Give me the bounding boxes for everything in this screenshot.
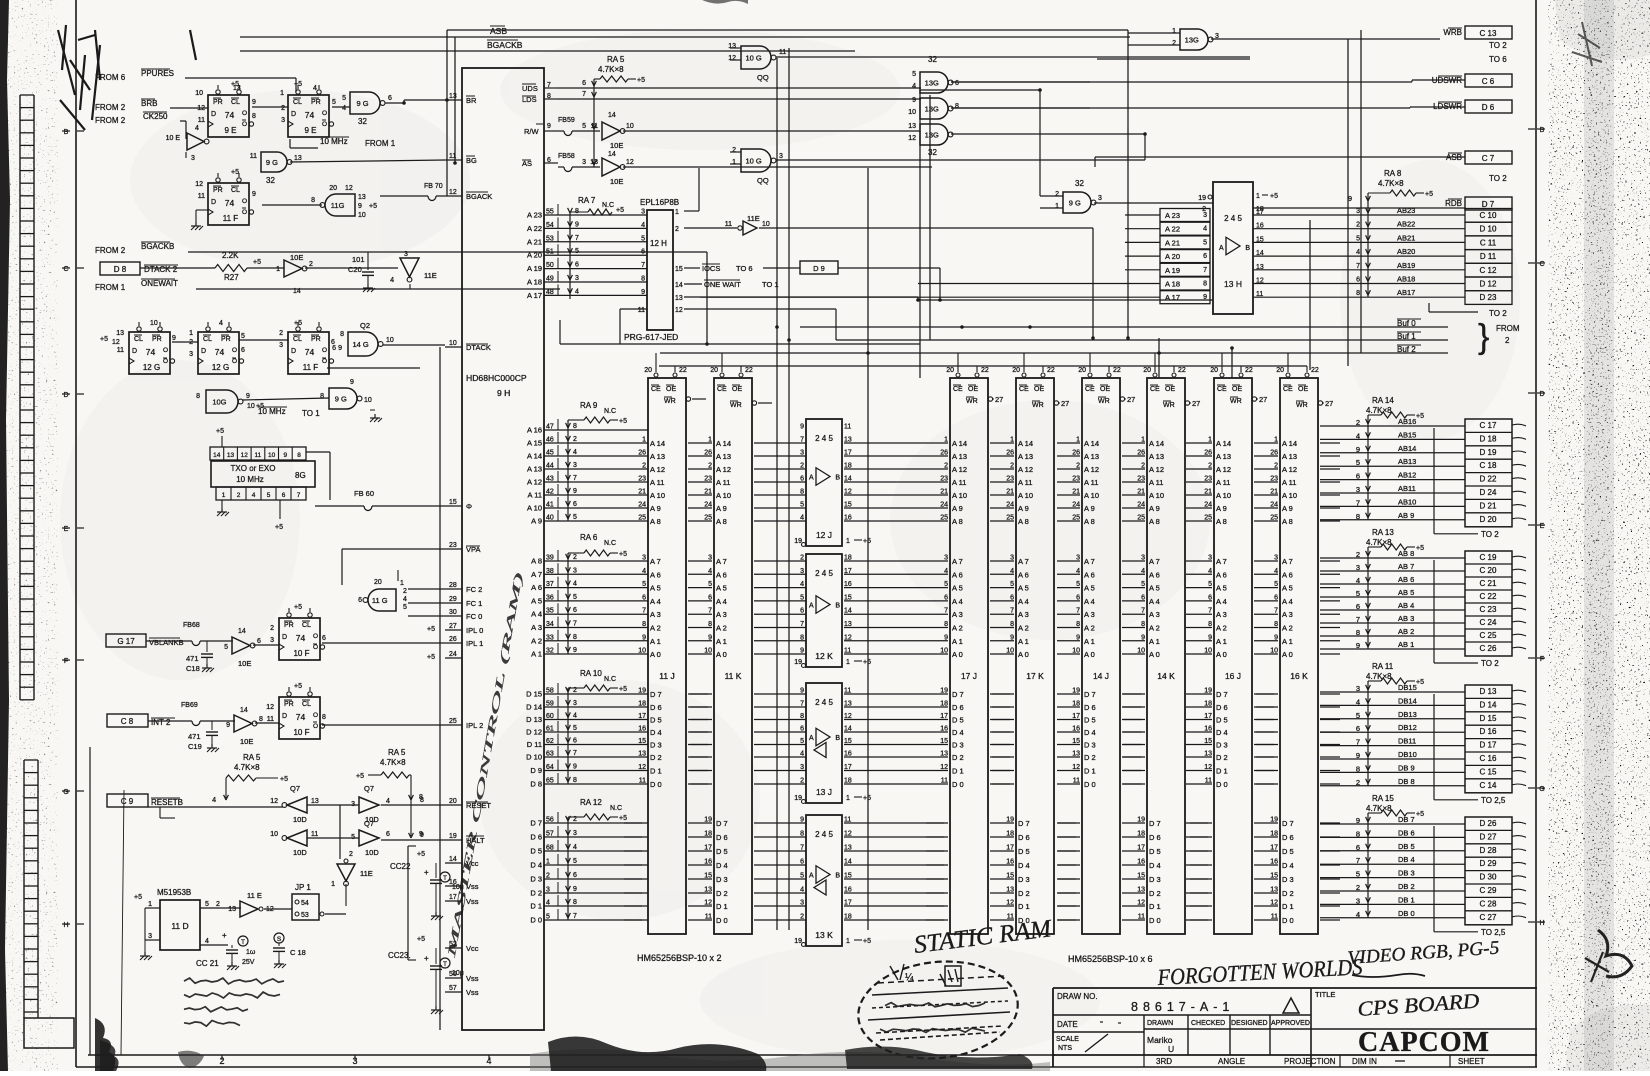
svg-text:A 1: A 1 <box>1149 637 1160 646</box>
svg-text:TO 2,5: TO 2,5 <box>1481 796 1506 805</box>
wire A2x row A 20 <box>544 254 647 256</box>
svg-text:IPL 2: IPL 2 <box>466 721 483 730</box>
svg-text:47: 47 <box>546 424 554 431</box>
svg-text:D 1: D 1 <box>1149 902 1161 911</box>
svg-text:R/W: R/W <box>524 127 540 136</box>
svg-text:10μ: 10μ <box>452 884 464 891</box>
wire 12H pin13 <box>684 296 918 298</box>
svg-text:A: A <box>809 873 814 880</box>
svg-text:13: 13 <box>675 295 683 302</box>
svg-text:22: 22 <box>981 367 989 374</box>
svg-text:D 1: D 1 <box>1282 902 1294 911</box>
svg-text:12: 12 <box>270 798 278 805</box>
svg-text:6: 6 <box>800 726 804 733</box>
svg-text:A 22: A 22 <box>1165 225 1180 234</box>
svg-text:+5: +5 <box>294 604 302 611</box>
svg-text:A 5: A 5 <box>1282 584 1293 593</box>
svg-text:20: 20 <box>1078 367 1086 374</box>
svg-text:3: 3 <box>800 900 804 907</box>
svg-text:C19: C19 <box>188 742 202 751</box>
svg-text:+5: +5 <box>1270 193 1278 200</box>
title block outer frame <box>1053 987 1537 989</box>
node box C9 RESETB <box>107 794 148 807</box>
svg-text:12: 12 <box>626 159 634 166</box>
wire bundle gap 7 <box>1254 442 1278 444</box>
svg-text:1: 1 <box>148 901 152 908</box>
svg-text:TITLE: TITLE <box>1315 990 1335 999</box>
svg-text:3: 3 <box>800 764 804 771</box>
svg-text:CL: CL <box>293 336 302 343</box>
svg-text:PR: PR <box>311 336 321 343</box>
svg-text:4: 4 <box>219 320 223 327</box>
RA10 row D 13 wire <box>558 719 648 721</box>
svg-text:5: 5 <box>800 594 804 601</box>
svg-text:5: 5 <box>800 738 804 745</box>
svg-text:11: 11 <box>844 817 851 824</box>
svg-text:A 0: A 0 <box>650 650 661 659</box>
svg-text:BR: BR <box>466 96 477 105</box>
svg-text:C 13: C 13 <box>1480 29 1497 38</box>
svg-text:10E: 10E <box>610 177 623 186</box>
svg-text:OE: OE <box>1232 386 1242 393</box>
svg-text:9: 9 <box>912 97 916 104</box>
svg-text:D 7: D 7 <box>1216 690 1228 699</box>
svg-text:IPL 1: IPL 1 <box>466 639 483 648</box>
svg-text:13 J: 13 J <box>816 787 832 797</box>
svg-text:9: 9 <box>642 634 646 641</box>
top-left corner scratches <box>58 30 75 95</box>
RAM 11 K unused data row stubs <box>690 693 708 695</box>
svg-text:8: 8 <box>575 208 579 215</box>
svg-text:9 H: 9 H <box>497 388 510 398</box>
svg-text:74: 74 <box>305 347 315 357</box>
svg-text:WR: WR <box>1163 402 1175 409</box>
svg-text:A 18: A 18 <box>527 278 542 287</box>
RA 13 row AB 1 right stub <box>1512 647 1526 649</box>
svg-text:8: 8 <box>320 393 324 400</box>
svg-text:B: B <box>835 603 840 610</box>
svg-text:10: 10 <box>908 109 916 116</box>
svg-text:4: 4 <box>1356 910 1360 919</box>
svg-text:A 11: A 11 <box>1282 478 1296 487</box>
wire bundle gap 4 <box>1057 442 1080 444</box>
svg-text:32: 32 <box>928 148 937 157</box>
svg-text:Q7: Q7 <box>364 784 374 793</box>
svg-text:2: 2 <box>279 330 283 337</box>
svg-text:20: 20 <box>710 367 718 374</box>
wire reset crossover <box>339 805 341 859</box>
svg-text:16: 16 <box>844 515 852 522</box>
RA 14 row AB12 right stub <box>1512 478 1526 480</box>
svg-text:A 14: A 14 <box>716 439 731 448</box>
svg-text:RA 11: RA 11 <box>1372 662 1394 671</box>
svg-text:+5: +5 <box>1416 811 1424 818</box>
svg-text:4: 4 <box>1356 697 1360 706</box>
svg-text:+5: +5 <box>863 538 871 545</box>
svg-text:+5: +5 <box>619 418 627 425</box>
RA 15 row DB 1 <box>1320 903 1465 905</box>
svg-text:10D: 10D <box>365 848 379 857</box>
svg-text:1: 1 <box>675 209 679 216</box>
svg-text:3: 3 <box>800 450 804 457</box>
bottom right corner scribble <box>1598 930 1632 977</box>
ground under 11F <box>196 209 208 211</box>
oscillator pin header top <box>210 447 306 460</box>
svg-text:7: 7 <box>641 262 645 269</box>
svg-text:C 20: C 20 <box>1480 566 1497 575</box>
wire IOCS row <box>684 267 700 269</box>
svg-text:BG: BG <box>466 156 477 165</box>
svg-text:6: 6 <box>1356 843 1360 852</box>
svg-text:D 0: D 0 <box>1282 916 1294 925</box>
svg-text:DTACK 2: DTACK 2 <box>144 265 178 274</box>
svg-text:41: 41 <box>546 502 554 509</box>
PRG-617-JED underline wire <box>560 343 920 345</box>
RA9 row A 13 wire <box>558 468 648 470</box>
svg-text:7: 7 <box>573 621 577 628</box>
svg-text:11E: 11E <box>424 271 437 280</box>
svg-text:13G: 13G <box>1185 36 1199 45</box>
svg-text:DB 9: DB 9 <box>1398 763 1415 772</box>
svg-text:FROM 2: FROM 2 <box>95 103 126 112</box>
RA9 row A 11 wire <box>558 494 648 496</box>
svg-text:5: 5 <box>1356 589 1360 598</box>
svg-text:8: 8 <box>800 831 804 838</box>
svg-text:DESIGNED: DESIGNED <box>1231 1020 1268 1027</box>
svg-text:5: 5 <box>912 71 916 78</box>
svg-text:13: 13 <box>844 437 852 444</box>
wire LDS row <box>558 98 921 100</box>
svg-text:+5: +5 <box>100 336 108 343</box>
svg-text:20: 20 <box>449 798 457 805</box>
wire A2x row A 23 <box>544 214 647 216</box>
svg-text:A 18: A 18 <box>1165 280 1180 289</box>
svg-text:4: 4 <box>1356 576 1360 585</box>
svg-text:5: 5 <box>573 594 577 601</box>
svg-text:8G: 8G <box>295 471 306 480</box>
svg-text:A 5: A 5 <box>650 584 661 593</box>
svg-text:9: 9 <box>172 335 176 342</box>
svg-text:FROM 6: FROM 6 <box>95 73 126 82</box>
RAM 14 K pin 20/22 stubs <box>1153 373 1157 377</box>
svg-text:A 0: A 0 <box>952 650 963 659</box>
RAM 14 J pin 20/22 stubs <box>1088 373 1092 377</box>
svg-text:74: 74 <box>296 633 306 643</box>
svg-text:D 19: D 19 <box>1480 448 1497 457</box>
RAM 11 J unused data row stubs <box>624 822 642 824</box>
RA 15 row DB 2 right stub <box>1512 889 1526 891</box>
RA 13 row AB 7 right stub <box>1512 569 1526 571</box>
svg-text:18: 18 <box>844 555 852 562</box>
svg-text:6: 6 <box>573 501 577 508</box>
svg-text:A 4: A 4 <box>716 597 727 606</box>
RAM 16 J HM65256 <box>1214 378 1252 934</box>
svg-text:10E: 10E <box>240 737 253 746</box>
RA 15 row DB 4 <box>1320 863 1465 865</box>
svg-text:5: 5 <box>546 914 550 921</box>
CPU pin 19 HALT <box>445 839 462 841</box>
svg-text:A 12: A 12 <box>650 465 665 474</box>
svg-text:M51953B: M51953B <box>157 888 191 897</box>
svg-text:A 8: A 8 <box>716 517 727 526</box>
svg-text:IOCS: IOCS <box>702 264 720 273</box>
svg-text:11 F: 11 F <box>303 363 319 372</box>
svg-text:10 G: 10 G <box>745 157 761 166</box>
svg-text:EPL16P8B: EPL16P8B <box>640 198 679 207</box>
svg-text:8: 8 <box>800 634 804 641</box>
svg-text:U: U <box>1168 1044 1174 1054</box>
svg-text:DB 4: DB 4 <box>1398 855 1415 864</box>
buffer 245 13H <box>1213 182 1253 314</box>
svg-text:D 9: D 9 <box>813 264 825 273</box>
svg-text:C 18: C 18 <box>1480 461 1497 470</box>
svg-text:7: 7 <box>1203 267 1207 274</box>
13H row A 21 <box>1160 236 1210 249</box>
svg-text:5: 5 <box>1356 458 1360 467</box>
svg-text:10D: 10D <box>293 848 307 857</box>
buffer 245 12 K <box>806 554 842 667</box>
13H row A 20 <box>1160 250 1210 263</box>
vertical bus line x1361 <box>1360 30 1362 353</box>
svg-text:17: 17 <box>449 894 457 901</box>
svg-text:O: O <box>232 347 237 354</box>
RA9 row A 10 wire <box>558 507 648 509</box>
svg-text:24: 24 <box>638 502 646 509</box>
svg-text:10: 10 <box>638 648 646 655</box>
vertical bus line x789 <box>788 48 790 930</box>
svg-text:20: 20 <box>644 367 652 374</box>
svg-text:D 14: D 14 <box>1480 700 1497 709</box>
svg-text:+5: +5 <box>427 626 435 633</box>
svg-text:C: C <box>1539 261 1544 268</box>
RAM 14 K unused data row stubs <box>1123 693 1141 695</box>
CPU pin 52 Vcc <box>445 947 462 949</box>
svg-text:A 0: A 0 <box>1149 650 1160 659</box>
vertical bus line x1348 <box>1347 39 1349 366</box>
svg-text:D 4: D 4 <box>1216 728 1228 737</box>
svg-text:A 9: A 9 <box>650 504 661 513</box>
svg-text:D 7: D 7 <box>1018 819 1030 828</box>
RA12 row D 5 wire <box>558 850 648 852</box>
svg-text:44: 44 <box>546 463 554 470</box>
svg-text:DB15: DB15 <box>1398 683 1417 692</box>
RA 14 row AB14 <box>1320 452 1465 454</box>
svg-text:BGACKB: BGACKB <box>141 242 174 251</box>
title block column lines <box>1143 1015 1145 1055</box>
svg-text:A 1: A 1 <box>1084 637 1095 646</box>
svg-text:+5: +5 <box>863 659 871 666</box>
svg-text:A 11: A 11 <box>650 478 664 487</box>
RA 15 row DB 5 right stub <box>1512 849 1526 851</box>
svg-text:D 2: D 2 <box>1216 753 1228 762</box>
RA6 row A 3 wire <box>558 627 648 629</box>
svg-text:+5: +5 <box>294 683 302 690</box>
svg-text:11: 11 <box>638 307 645 314</box>
svg-text:Vcc: Vcc <box>466 944 479 953</box>
svg-text:A: A <box>1219 245 1224 252</box>
svg-text:A 4: A 4 <box>650 597 661 606</box>
RAM 17 J pin 20/22 stubs <box>956 373 960 377</box>
RA 11 value box column <box>1465 685 1512 793</box>
svg-text:16: 16 <box>844 581 852 588</box>
svg-text:4.7K×8: 4.7K×8 <box>380 758 406 767</box>
svg-text:16 K: 16 K <box>1290 671 1308 681</box>
svg-text:A 1: A 1 <box>716 637 727 646</box>
svg-text:15: 15 <box>844 873 852 880</box>
svg-text:22: 22 <box>679 367 687 374</box>
CPU pin 56 Vss <box>445 977 462 979</box>
svg-text:WR: WR <box>966 398 978 405</box>
RA 15 row DB 6 right stub <box>1512 836 1526 838</box>
svg-text:16 J: 16 J <box>1225 671 1241 681</box>
svg-text:+5: +5 <box>356 773 364 780</box>
svg-text:15: 15 <box>675 266 683 273</box>
svg-text:18: 18 <box>844 463 852 470</box>
svg-text:45: 45 <box>546 450 554 457</box>
svg-text:6: 6 <box>388 95 392 102</box>
svg-text:D 8: D 8 <box>114 265 127 274</box>
wire FF1 to FF2 <box>252 106 288 108</box>
svg-text:CE: CE <box>1085 386 1095 393</box>
RA 13 row AB 3 right stub <box>1512 621 1526 623</box>
svg-text:6: 6 <box>358 597 362 604</box>
svg-text:Vss: Vss <box>466 882 479 891</box>
buffer 245 12 J <box>806 419 842 546</box>
svg-text:D 17: D 17 <box>1480 741 1497 750</box>
svg-text:A 1: A 1 <box>650 637 661 646</box>
svg-text:2: 2 <box>403 588 407 595</box>
svg-text:O: O <box>313 644 318 651</box>
svg-text:D 0: D 0 <box>1149 916 1161 925</box>
svg-text:11: 11 <box>844 424 851 431</box>
svg-text:CL: CL <box>302 622 311 629</box>
RA 15 row DB 0 right stub <box>1512 916 1526 918</box>
svg-text:8: 8 <box>1356 628 1360 637</box>
RA 15 arrow column <box>1367 813 1369 918</box>
svg-text:APPROVED: APPROVED <box>1271 1020 1310 1027</box>
CPU pin 20 RESET <box>445 804 462 806</box>
svg-text:AB14: AB14 <box>1398 444 1416 453</box>
svg-text:Vss: Vss <box>466 897 479 906</box>
13H row A 23 <box>1160 209 1210 222</box>
svg-text:DB14: DB14 <box>1398 696 1417 705</box>
svg-text:2: 2 <box>270 625 274 632</box>
svg-text:O: O <box>322 358 327 365</box>
svg-text:AB13: AB13 <box>1398 457 1416 466</box>
svg-text:39: 39 <box>546 555 554 562</box>
CPU pin 29 FC1 <box>445 602 462 604</box>
svg-text:D 5: D 5 <box>952 716 964 725</box>
svg-text:OE: OE <box>1100 386 1110 393</box>
RA 11 row DB15 right stub <box>1512 690 1526 692</box>
RA 14 row AB15 <box>1320 438 1465 440</box>
RA 11 row DB11 <box>1320 745 1465 747</box>
svg-text:6: 6 <box>332 345 336 352</box>
svg-text:A 13: A 13 <box>527 465 542 474</box>
svg-text:C 19: C 19 <box>1480 553 1497 562</box>
svg-text:11 G: 11 G <box>372 596 388 605</box>
svg-text:D 6: D 6 <box>1018 833 1030 842</box>
svg-text:2: 2 <box>1172 40 1176 47</box>
svg-text:D 5: D 5 <box>1282 847 1294 856</box>
svg-text:HALT: HALT <box>466 836 485 845</box>
svg-text:G: G <box>1539 786 1544 793</box>
13H TO 2 bracket <box>1428 303 1430 312</box>
RA5 arrow column <box>593 79 595 167</box>
svg-text:SHEET: SHEET <box>1458 1057 1485 1066</box>
svg-text:8: 8 <box>955 103 959 110</box>
svg-text:3: 3 <box>1356 684 1360 693</box>
svg-text:4: 4 <box>642 568 646 575</box>
svg-text:54: 54 <box>301 900 309 907</box>
svg-text:3: 3 <box>1203 212 1207 219</box>
svg-text:7: 7 <box>800 701 804 708</box>
svg-text:A 9: A 9 <box>531 517 542 526</box>
svg-text:17: 17 <box>844 568 852 575</box>
svg-text:8: 8 <box>573 423 577 430</box>
svg-text:CE: CE <box>1150 386 1160 393</box>
RA 14 arrow column <box>1367 415 1369 520</box>
scan noise right band <box>1548 0 1650 1071</box>
svg-text:+5: +5 <box>616 207 624 214</box>
svg-text:AB 9: AB 9 <box>1398 511 1414 520</box>
svg-text:A 13: A 13 <box>1282 452 1297 461</box>
svg-text:4: 4 <box>573 581 577 588</box>
RA12 row D 3 wire <box>558 878 648 880</box>
svg-text:RA 15: RA 15 <box>1372 794 1394 803</box>
svg-text:+: + <box>424 868 429 877</box>
svg-text:D 27: D 27 <box>1480 832 1497 841</box>
svg-text:C 24: C 24 <box>1480 618 1497 627</box>
svg-text:WRB: WRB <box>1443 28 1462 37</box>
svg-text:46: 46 <box>546 437 554 444</box>
RAM 11 K HM65256 <box>714 378 752 934</box>
svg-text:4: 4 <box>403 596 407 603</box>
svg-text:10D: 10D <box>293 815 307 824</box>
svg-text:Vss: Vss <box>466 988 479 997</box>
svg-text:+5: +5 <box>231 81 239 88</box>
svg-text:AB 6: AB 6 <box>1398 575 1414 584</box>
svg-text:13: 13 <box>908 123 916 130</box>
svg-text:20: 20 <box>1012 367 1020 374</box>
svg-text:22: 22 <box>745 367 753 374</box>
RA 15 collector bracket <box>1433 826 1435 932</box>
vertical line from 11E down to ONEWAIT <box>409 284 411 289</box>
svg-text:A 13: A 13 <box>1216 452 1231 461</box>
svg-text:9: 9 <box>573 647 577 654</box>
svg-text:D 1: D 1 <box>1018 902 1030 911</box>
svg-text:PR: PR <box>152 336 162 343</box>
svg-text:35: 35 <box>546 608 554 615</box>
CPU pin 12 BGACK <box>445 195 462 197</box>
CPU pin 57 Vss <box>445 991 462 993</box>
left inner vertical line <box>89 747 91 1055</box>
svg-text:A 2: A 2 <box>531 636 542 645</box>
svg-text:4: 4 <box>573 449 577 456</box>
CPU pin 17 Vss <box>445 900 462 902</box>
svg-text:2: 2 <box>1055 191 1059 198</box>
svg-text:3: 3 <box>575 275 579 282</box>
svg-text:6: 6 <box>322 635 326 642</box>
torn paper blob bottom middle large <box>548 1036 766 1071</box>
RAM 16 K pin 20/22 stubs <box>1286 373 1290 377</box>
svg-text:CE: CE <box>953 386 963 393</box>
svg-text:2 4 5: 2 4 5 <box>815 434 833 443</box>
svg-text:5: 5 <box>1203 239 1207 246</box>
svg-text:A 1: A 1 <box>1216 637 1227 646</box>
RA6 row A 2 wire <box>558 640 648 642</box>
svg-text:C 18: C 18 <box>290 948 306 957</box>
